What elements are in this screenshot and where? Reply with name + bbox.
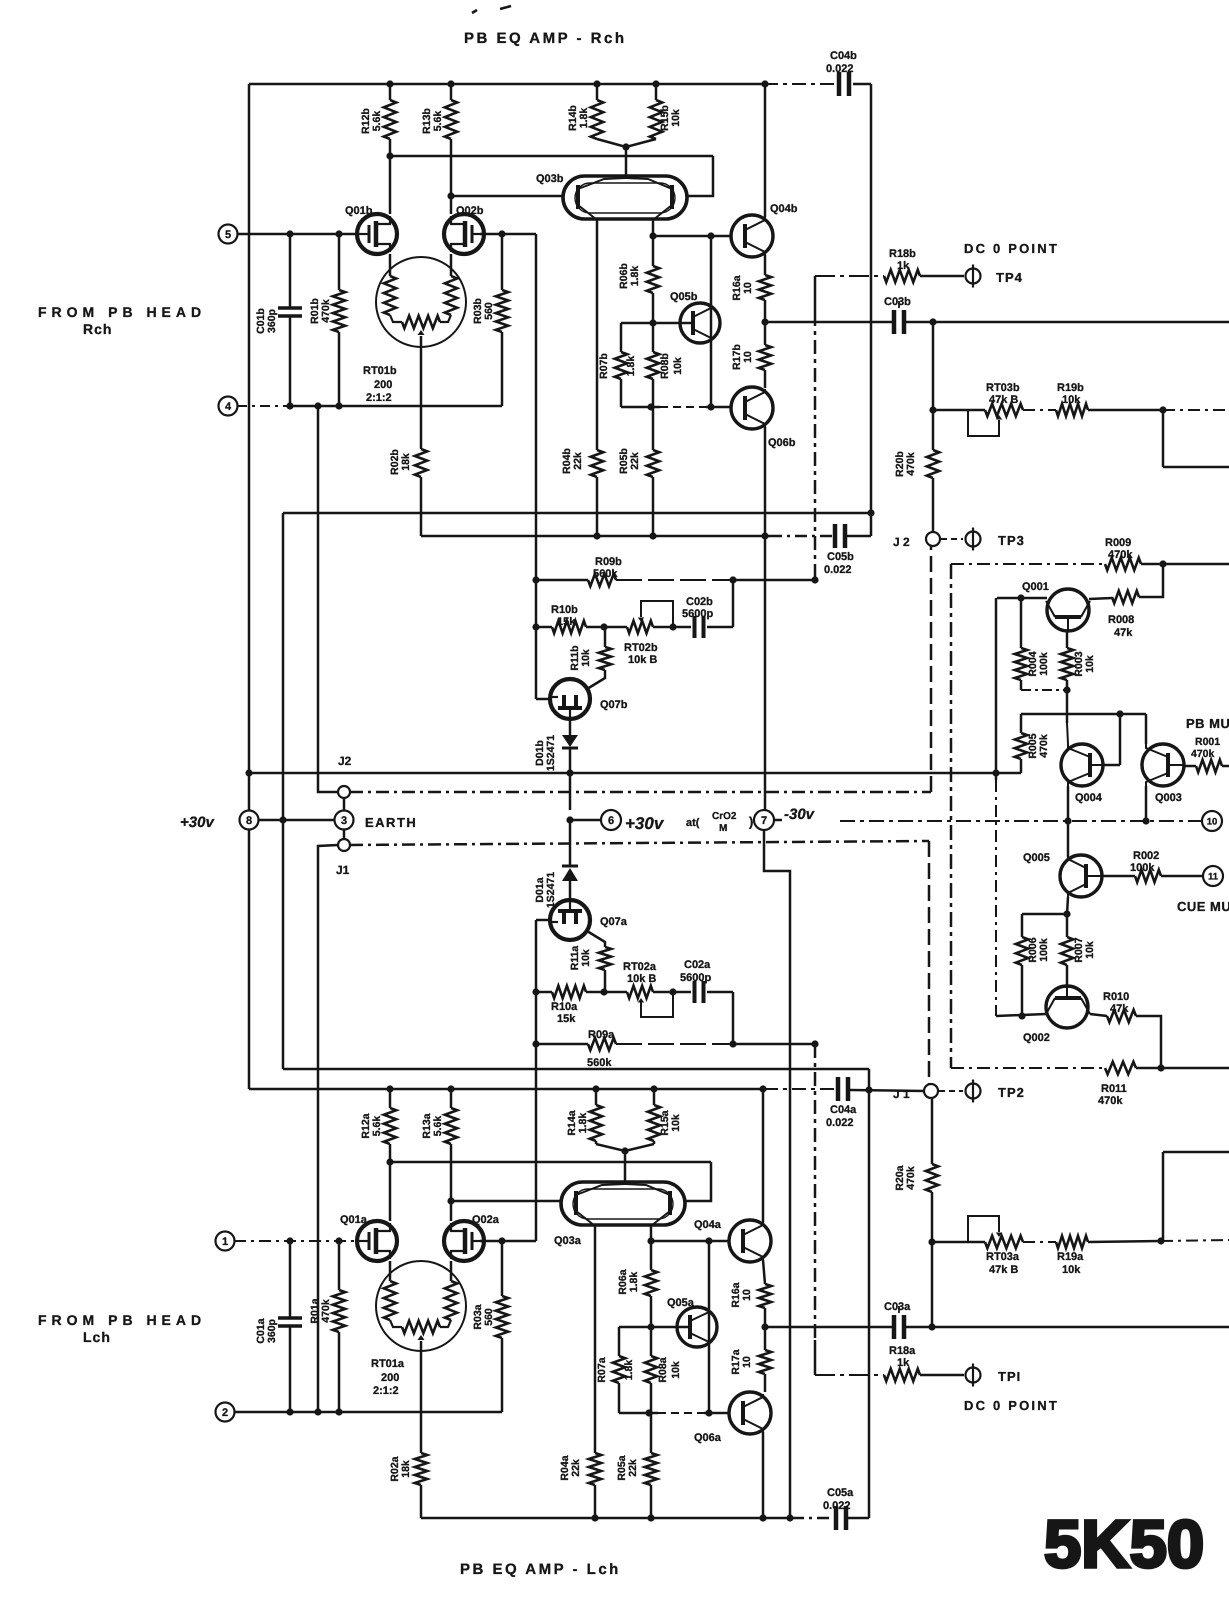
svg-text:10k: 10k [580,649,592,667]
wire Q05b base line [621,322,693,325]
resistor R20a 470k [931,1098,934,1164]
resistor R003 10k [1066,631,1069,648]
wire ground line Lch y1069 [283,1068,869,1071]
wire J2 drop x318 [318,406,338,792]
resistor R12b 5.6k [389,84,392,100]
resistor R10a 15k [536,991,552,994]
resistor R01b 470k [338,234,341,290]
svg-text:4: 4 [225,401,232,413]
svg-text:360p: 360p [266,1319,278,1343]
resistor R18b 1k [815,275,884,277]
wire terminal 8 to terminal 3 [259,819,334,822]
svg-text:C05a: C05a [827,1487,854,1499]
svg-text:47k: 47k [1110,1003,1129,1015]
svg-text:5: 5 [225,229,231,241]
svg-text:5.6k: 5.6k [371,111,383,132]
svg-text:15k: 15k [557,1013,576,1025]
resistor R11b 10k [604,627,607,647]
wire center vertical x815 Rch segment [814,276,817,312]
svg-text:C03a: C03a [884,1301,911,1313]
svg-text:R001: R001 [1195,736,1220,748]
wire +30v left bus vertical [248,84,251,1089]
resistor R20b 470k [932,322,935,450]
wire +30v top rail [249,83,764,86]
transistor Q06b [731,387,773,429]
svg-text:+30v: +30v [625,814,665,833]
svg-text:R011: R011 [1101,1083,1127,1095]
trimmer RT03a 47k B [985,1236,1023,1248]
wire RT03b line y410 [929,406,936,413]
wire right edge loop Rch [1162,410,1165,467]
resistor R06b 1.8k [652,236,655,266]
wire Q07a gate [536,919,552,922]
wire R14b R15b join to Q03b [597,139,656,147]
svg-text:47k B: 47k B [989,394,1018,406]
resistor R10b 15k [536,626,552,629]
svg-text:8: 8 [246,815,252,827]
resistor R007 10k [1066,914,1069,937]
svg-text:10k: 10k [1062,394,1081,406]
wire center vertical x815 Lch segment [814,1044,817,1340]
svg-text:Q03b: Q03b [536,173,564,185]
svg-text:0.022: 0.022 [823,1500,851,1512]
svg-text:TP4: TP4 [996,270,1023,285]
svg-text:5.6k: 5.6k [432,111,444,132]
wire Q06b emitter to y536 and terminal 7 [764,427,767,536]
svg-text:R19b: R19b [1057,382,1084,394]
resistor R002 100k [1102,875,1135,878]
svg-text:R10b: R10b [551,604,578,616]
svg-text:DC 0 POINT: DC 0 POINT [964,1398,1059,1413]
svg-text:RT02a: RT02a [623,961,657,973]
capacitor C01b 360p [289,234,292,308]
resistor R06a 1.8k [650,1241,653,1270]
svg-text:10k B: 10k B [627,973,656,985]
jumper J2 left [343,799,346,810]
wire Q02a drain column [450,1162,453,1221]
transistor Q06a [729,1392,771,1434]
terminal 7 -30v [754,810,774,830]
svg-text:PB EQ AMP - Lch: PB EQ AMP - Lch [460,1561,621,1578]
svg-text:10k: 10k [1084,655,1096,673]
svg-text:R008: R008 [1108,614,1134,626]
svg-text:5K50: 5K50 [1044,1507,1204,1582]
wire J1 drop x318 [318,845,338,1412]
svg-text:2:1:2: 2:1:2 [366,392,392,404]
diode D01b 1S2471 [569,719,572,735]
wire Q07b gate [536,698,552,701]
svg-text:100k: 100k [1038,938,1050,962]
wire R12b R13b bottoms y156 [390,155,713,158]
resistor R09a 560k [536,1043,588,1046]
svg-text:Q06a: Q06a [694,1432,722,1444]
svg-text:EARTH: EARTH [365,815,417,830]
svg-text:Q001: Q001 [1022,581,1049,593]
svg-text:10: 10 [741,1289,753,1301]
trimmer RT02a 10k B [605,991,627,994]
svg-text:47k: 47k [1114,627,1133,639]
wire R20a to C03a line [931,1242,934,1327]
test point TP3 [941,538,963,540]
resistor R14a 1.8k [595,1089,598,1105]
svg-text:0.022: 0.022 [826,1117,854,1129]
resistor R16a 10 Lch [759,1284,771,1308]
svg-text:TP2: TP2 [998,1085,1025,1100]
resistor R05b 22k [652,407,655,450]
wire Q04b base line [653,235,731,238]
svg-text:C04b: C04b [830,50,857,62]
svg-text:10: 10 [742,282,754,294]
wire R011 line y1068 [951,1067,1105,1069]
wire Q04a base line [651,1240,729,1243]
resistor R16a 10 Rch [759,275,771,300]
jumper J1 left [343,830,346,839]
capacitor C05a 0.022 [834,1506,839,1530]
svg-text:10k: 10k [672,357,684,375]
svg-text:200: 200 [381,1372,399,1384]
svg-text:J 1: J 1 [893,1087,910,1101]
resistor R11a 10k [587,931,605,947]
resistor R03a 560 [501,1241,504,1296]
wire R009 line y564 [951,563,1105,565]
resistor R18a 1k [815,1374,884,1376]
resistor R17a 10 [764,1327,767,1350]
wire right column x869 Lch [868,1069,871,1518]
svg-text:2:1:2: 2:1:2 [373,1385,399,1397]
svg-text:560: 560 [483,302,495,320]
svg-text:C02a: C02a [684,959,711,971]
wire Q04b collector to rail [764,84,767,217]
jumper J2 right [926,532,940,546]
svg-text:1.8k: 1.8k [629,266,641,287]
capacitor C02b 5600p [673,626,691,629]
resistor R13a 5.6k [450,1089,453,1108]
capacitor C02a 5600p [673,991,691,994]
resistor R12a 5.6k [389,1089,392,1108]
svg-text:R09a: R09a [588,1029,615,1041]
svg-text:5600p: 5600p [680,972,711,984]
wire RT01b wiper to R02b [420,336,423,449]
svg-text:1.8k: 1.8k [577,1113,589,1134]
svg-text:470k: 470k [320,1299,332,1323]
svg-text:Q07b: Q07b [600,699,628,711]
resistor R07b 1.8k [620,323,623,352]
wire Q002 base line y1016 [996,1014,1046,1016]
wire terminal 1 to Q01a gate [234,1240,359,1242]
resistor R14b 1.8k [596,84,599,100]
svg-text:2: 2 [222,1407,228,1419]
svg-text:Rch: Rch [83,321,112,337]
terminal 5 [219,225,238,244]
svg-text:R10a: R10a [551,1001,578,1013]
wire C03b output line y322 [765,321,892,324]
wire Q06a emitter to rail [762,1432,765,1518]
svg-text:560k: 560k [593,568,618,580]
wire Q02a gate feedback x536 [535,920,538,1241]
wire terminal 4 line [237,405,293,407]
resistor R04a 22k [589,1453,601,1485]
svg-text:R18b: R18b [889,248,916,260]
svg-text:470k: 470k [1038,734,1050,758]
jumper J1 right [924,1084,938,1098]
svg-text:100k: 100k [1038,652,1050,676]
svg-text:1.8k: 1.8k [623,1360,635,1381]
svg-text:R010: R010 [1103,991,1129,1003]
wire Q02a gate line [480,1240,536,1243]
svg-text:Q05b: Q05b [670,291,698,303]
svg-text:R08a: R08a [657,1357,669,1382]
trimmer RT01b 200 2:1:2 [376,257,466,347]
svg-text:RT01b: RT01b [363,365,397,377]
transistor Q01a [357,1221,397,1261]
svg-text:10k: 10k [670,1361,682,1379]
svg-text:1S2471: 1S2471 [545,735,557,771]
wire Q03a left collector to R04a [594,1226,597,1453]
svg-text:5.6k: 5.6k [371,1116,383,1137]
resistor R009 470k [1105,558,1141,570]
svg-text:Lch: Lch [83,1329,111,1345]
capacitor C03a [892,1315,897,1339]
svg-text:470k: 470k [905,1166,917,1190]
resistor R011 470k [1105,1062,1136,1074]
svg-text:560: 560 [483,1308,495,1326]
svg-text:Q003: Q003 [1155,792,1182,804]
svg-text:10: 10 [741,1356,753,1368]
transistor Q005 [1067,821,1070,857]
terminal 10 [1202,811,1222,831]
terminal 2 [216,1403,235,1422]
wire terminal 2 line [234,1411,502,1414]
svg-text:470k: 470k [1098,1095,1123,1107]
svg-text:RT02b: RT02b [624,642,658,654]
svg-text:-30v: -30v [784,806,816,823]
svg-text:10: 10 [1207,816,1218,827]
transistor Q01b [357,214,397,254]
svg-text:CUE MU: CUE MU [1177,899,1229,914]
resistor R15a 10k [653,1089,656,1105]
transistor Q004 [1066,690,1069,723]
capacitor C04a 0.022 [836,1077,841,1101]
wire Q03b right base loop [687,156,713,196]
resistor R09b 560k [536,579,588,582]
svg-text:1k: 1k [897,1357,910,1369]
resistor R13b 5.6k [450,84,453,100]
resistor R05a 22k [650,1413,653,1453]
svg-text:22k: 22k [627,1459,639,1477]
svg-text:22k: 22k [572,452,584,470]
terminal 11 [1203,866,1223,886]
svg-text:DC 0 POINT: DC 0 POINT [964,241,1059,256]
svg-text:RT03a: RT03a [986,1251,1020,1263]
resistor R01a 470k [338,1241,341,1290]
wire Q02b gate line [480,233,536,236]
svg-text:C05b: C05b [827,551,854,563]
resistor R03b 560 [501,234,504,290]
svg-text:1k: 1k [897,260,910,272]
wire Q06b base line y407 [621,406,660,409]
svg-text:11: 11 [1208,871,1219,882]
capacitor C03b [892,310,897,334]
transistor Q001 [997,597,1047,600]
resistor R008 47k [1089,598,1112,599]
svg-text:470k: 470k [320,299,332,323]
wire Q004 base from right [1119,714,1122,765]
transistor Q05b [710,236,713,407]
svg-text:Q02a: Q02a [472,1214,500,1226]
transistor Q07b [550,679,590,719]
svg-text:18k: 18k [400,1460,412,1478]
svg-text:J 2: J 2 [893,535,910,549]
svg-text:7: 7 [761,815,767,827]
transistor Q05a [708,1241,711,1413]
wire Q04b emitter to R16a [764,255,767,275]
svg-text:15k: 15k [557,616,576,628]
transistor Q04b [731,215,773,257]
svg-text:1.8k: 1.8k [578,108,590,129]
svg-text:Q02b: Q02b [456,205,484,217]
transistor Q02b [444,214,484,254]
wire Q03b left base [451,195,563,198]
svg-text:Q06b: Q06b [768,437,796,449]
svg-text:FROM PB HEAD: FROM PB HEAD [38,1312,206,1328]
svg-text:Q07a: Q07a [600,916,628,928]
svg-text:at(: at( [686,817,700,829]
svg-text:R009: R009 [1105,537,1131,549]
capacitor C05b 0.022 [833,524,838,548]
transistor Q02a [444,1221,484,1261]
wire Q03b right collector node [652,220,655,236]
svg-text:10k: 10k [670,1114,682,1132]
wire muting feed x951 [950,564,953,1068]
svg-text:360p: 360p [266,309,278,333]
wire Q04a emitter to R16a [763,1260,765,1284]
svg-text:C03b: C03b [884,296,911,308]
test point TP2 [939,1090,963,1092]
resistor R08b 10k [652,323,655,352]
svg-text:Q03a: Q03a [554,1235,582,1247]
svg-text:3: 3 [341,815,347,827]
wire Q03a left base [451,1200,561,1203]
wire right edge loop Lch [1162,1152,1165,1241]
wire Q04a collector to rail [762,1089,765,1222]
svg-text:1: 1 [222,1236,228,1248]
resistor R005 470k [1020,714,1023,733]
svg-text:J2: J2 [338,754,352,768]
wire Q004 Q003 base line y714 [1021,713,1146,716]
terminal 4 [219,397,238,416]
wire Q03b left collector to R04b [596,220,599,450]
svg-text:100k: 100k [1130,862,1155,874]
transistor Q003 [1145,714,1148,744]
resistor R02b 18k [415,449,427,477]
wire Q03a right base loop [685,1162,711,1201]
svg-text:C02b: C02b [686,596,713,608]
wire Q01b drain to R12b [389,156,392,214]
transistor Q04a [729,1220,771,1262]
svg-text:470k: 470k [1191,748,1215,760]
wire jumper J2 dashed line [350,791,931,794]
svg-text:RT01a: RT01a [371,1358,405,1370]
svg-text:5.6k: 5.6k [432,1116,444,1137]
dual transistor Q03b [563,176,687,219]
svg-text:Q005: Q005 [1023,852,1050,864]
svg-text:Q01a: Q01a [340,1214,368,1226]
svg-text:R07b: R07b [598,353,610,379]
dual transistor Q03a [561,1182,685,1225]
svg-text:10k: 10k [670,109,682,127]
resistor R07a 1.8k [618,1327,621,1356]
svg-text:5600p: 5600p [682,608,713,620]
wire Q02b drain column [450,156,453,214]
svg-text:1.8k: 1.8k [625,356,637,377]
svg-text:Q002: Q002 [1023,1032,1050,1044]
svg-text:PB EQ AMP - Rch: PB EQ AMP - Rch [464,30,627,47]
transistor Q07a [550,900,590,940]
svg-text:R08b: R08b [659,353,671,379]
svg-text:22k: 22k [570,1459,582,1477]
svg-text:): ) [749,814,753,829]
wire terminal 5 to Q01b gate [237,233,359,236]
svg-text:10k: 10k [1084,941,1096,959]
wire Q01a drain to R12a [389,1162,392,1221]
wire Q06a base line y1413 [619,1412,658,1415]
svg-text:0.022: 0.022 [826,63,854,75]
wire ground line Rch y513 [283,512,871,515]
wire -30v line to terminal 10 [774,819,782,822]
svg-text:PB MU: PB MU [1186,716,1229,731]
svg-text:R19a: R19a [1057,1251,1084,1263]
svg-text:R18a: R18a [889,1345,916,1357]
wire Q02b gate feedback x536 [535,234,538,699]
resistor R02a 18k [415,1453,427,1485]
wire Lch bottom rail y1518 [421,1517,792,1520]
svg-text:TP3: TP3 [998,533,1025,548]
resistor R15b 10k [655,84,658,100]
svg-text:470k: 470k [1108,549,1133,561]
wire R14a R15a join to Q03a [596,1144,654,1151]
trimmer RT03b 47k B [985,404,1023,416]
resistor R19a 10k [1056,1236,1088,1248]
svg-text:10k: 10k [580,949,592,967]
resistor R04b 22k [591,450,603,477]
wire Q05a base line [619,1326,690,1329]
svg-text:M: M [719,823,727,834]
resistor R17b 10 [764,322,767,345]
svg-text:CrO2: CrO2 [712,811,737,822]
resistor R19b 10k [1056,404,1088,416]
svg-text:10k B: 10k B [628,654,657,666]
svg-text:J1: J1 [336,863,350,877]
wire RT01a wiper to R02a [420,1341,423,1453]
svg-text:FROM PB HEAD: FROM PB HEAD [38,304,206,320]
svg-text:Q04a: Q04a [694,1219,722,1231]
wire jumper J1 dashed line [350,841,929,845]
wire ground bus x283 [282,513,285,1069]
resistor R006 100k [1022,913,1067,916]
resistor R001 470k [1184,765,1196,768]
svg-text:1.8k: 1.8k [628,1272,640,1293]
svg-text:C04a: C04a [830,1104,857,1116]
wire Lch top rail / J1 line [249,1088,764,1091]
terminal 3 EARTH [335,811,354,830]
svg-text:R07a: R07a [596,1357,608,1382]
wire R12a R13a bottoms y1162 [390,1161,711,1164]
terminal 6 +30v CrO2 [570,819,601,822]
wire Q001 base drop x996 [995,598,998,780]
trimmer RT01a 200 2:1:2 [376,1261,466,1351]
resistor R010 47k [1090,1014,1107,1016]
svg-text:+30v: +30v [180,814,215,831]
